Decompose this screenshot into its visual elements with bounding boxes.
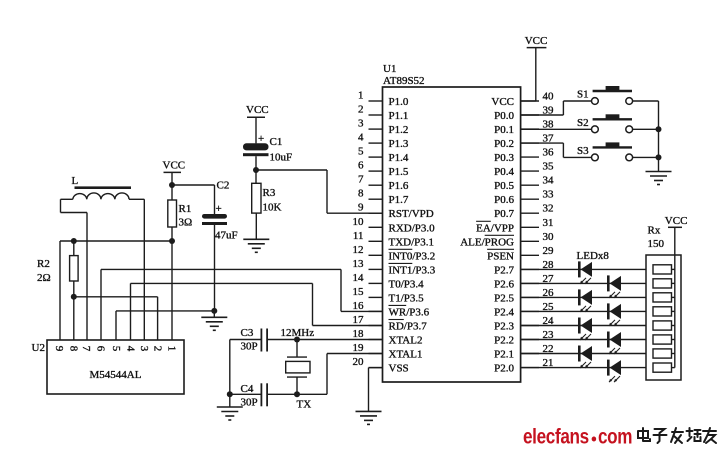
- svg-text:P1.0: P1.0: [389, 96, 409, 108]
- svg-text:P1.1: P1.1: [389, 110, 409, 122]
- svg-text:WR/P3.6: WR/P3.6: [389, 306, 430, 318]
- svg-text:P2.6: P2.6: [494, 278, 514, 290]
- svg-text:C1: C1: [270, 136, 283, 148]
- svg-text:+: +: [258, 133, 264, 145]
- svg-text:P0.5: P0.5: [494, 180, 514, 192]
- svg-text:150: 150: [648, 238, 665, 250]
- svg-text:S1: S1: [577, 89, 589, 101]
- svg-text:36: 36: [543, 147, 555, 159]
- svg-text:29: 29: [543, 245, 555, 257]
- svg-text:7: 7: [80, 346, 92, 352]
- svg-text:C3: C3: [241, 327, 254, 339]
- svg-text:P1.5: P1.5: [389, 166, 409, 178]
- svg-text:P1.7: P1.7: [389, 194, 409, 206]
- svg-text:R1: R1: [179, 203, 192, 215]
- svg-text:4: 4: [358, 132, 364, 144]
- svg-text:Rx: Rx: [648, 225, 661, 237]
- svg-text:30: 30: [543, 231, 555, 243]
- svg-text:31: 31: [543, 217, 554, 229]
- svg-text:com: com: [598, 426, 632, 449]
- svg-text:3Ω: 3Ω: [179, 217, 193, 229]
- svg-text:19: 19: [353, 342, 365, 354]
- svg-text:R3: R3: [263, 187, 276, 199]
- svg-text:4: 4: [124, 346, 136, 352]
- svg-text:30P: 30P: [241, 341, 258, 353]
- svg-text:47uF: 47uF: [215, 230, 238, 242]
- svg-text:2Ω: 2Ω: [37, 272, 51, 284]
- svg-text:P1.3: P1.3: [389, 138, 409, 150]
- svg-text:10: 10: [353, 216, 365, 228]
- svg-text:INT0/P3.2: INT0/P3.2: [389, 250, 436, 262]
- svg-text:8: 8: [358, 188, 364, 200]
- svg-text:elecfans: elecfans: [523, 426, 589, 449]
- svg-text:P2.1: P2.1: [494, 349, 514, 361]
- svg-text:INT1/P3.3: INT1/P3.3: [389, 264, 436, 276]
- svg-text:VCC: VCC: [163, 160, 186, 172]
- svg-text:RST/VPD: RST/VPD: [389, 208, 434, 220]
- svg-text:LEDx8: LEDx8: [577, 250, 610, 262]
- svg-text:T0/P3.4: T0/P3.4: [389, 278, 425, 290]
- svg-text:9: 9: [358, 202, 364, 214]
- svg-text:P2.5: P2.5: [494, 292, 514, 304]
- svg-text:VCC: VCC: [246, 104, 269, 116]
- svg-text:15: 15: [353, 286, 365, 298]
- svg-text:P2.4: P2.4: [494, 306, 514, 318]
- svg-text:2: 2: [358, 104, 364, 116]
- svg-text:12MHz: 12MHz: [281, 327, 315, 339]
- svg-text:P0.6: P0.6: [494, 194, 514, 206]
- svg-text:C4: C4: [241, 383, 254, 395]
- svg-text:AT89S52: AT89S52: [383, 75, 425, 87]
- svg-text:8: 8: [67, 346, 79, 352]
- svg-text:M54544AL: M54544AL: [90, 369, 142, 381]
- svg-text:U1: U1: [383, 63, 396, 75]
- svg-text:S3: S3: [577, 145, 589, 157]
- svg-text:EA/VPP: EA/VPP: [476, 222, 514, 234]
- svg-text:1: 1: [166, 346, 178, 352]
- svg-text:6: 6: [358, 160, 364, 172]
- svg-text:L: L: [72, 175, 79, 187]
- svg-text:RD/P3.7: RD/P3.7: [389, 321, 428, 333]
- svg-text:11: 11: [353, 230, 364, 242]
- svg-text:18: 18: [353, 328, 365, 340]
- svg-text:7: 7: [358, 174, 364, 186]
- svg-text:U2: U2: [32, 342, 45, 354]
- svg-text:20: 20: [353, 356, 365, 368]
- svg-text:P2.2: P2.2: [494, 335, 514, 347]
- svg-text:RXD/P3.0: RXD/P3.0: [389, 222, 436, 234]
- svg-text:P1.4: P1.4: [389, 152, 409, 164]
- svg-text:P2.0: P2.0: [494, 363, 514, 375]
- svg-text:VCC: VCC: [665, 215, 688, 227]
- svg-text:P0.7: P0.7: [494, 208, 514, 220]
- svg-text:6: 6: [94, 346, 106, 352]
- svg-text:3: 3: [138, 346, 150, 352]
- svg-text:P1.2: P1.2: [389, 124, 409, 136]
- svg-text:S2: S2: [577, 117, 589, 129]
- svg-text:P2.3: P2.3: [494, 321, 514, 333]
- svg-text:1: 1: [358, 90, 364, 102]
- svg-text:P0.0: P0.0: [494, 110, 514, 122]
- svg-text:C2: C2: [217, 180, 230, 192]
- svg-text:TX: TX: [297, 399, 312, 411]
- svg-text:XTAL1: XTAL1: [389, 349, 423, 361]
- svg-text:13: 13: [353, 258, 365, 270]
- svg-text:R2: R2: [37, 258, 50, 270]
- svg-text:VSS: VSS: [389, 363, 409, 375]
- svg-text:14: 14: [353, 272, 365, 284]
- svg-text:P2.7: P2.7: [494, 264, 514, 276]
- svg-text:33: 33: [543, 189, 555, 201]
- svg-text:17: 17: [353, 314, 365, 326]
- svg-text:ALE/PROG: ALE/PROG: [460, 236, 514, 248]
- svg-text:VCC: VCC: [525, 35, 548, 47]
- svg-text:+: +: [216, 203, 222, 215]
- svg-text:P0.4: P0.4: [494, 166, 514, 178]
- svg-text:PSEN: PSEN: [487, 250, 514, 262]
- svg-text:40: 40: [543, 91, 555, 103]
- svg-text:P1.6: P1.6: [389, 180, 409, 192]
- svg-text:12: 12: [353, 244, 364, 256]
- svg-text:XTAL2: XTAL2: [389, 335, 423, 347]
- svg-text:5: 5: [358, 146, 364, 158]
- svg-text:16: 16: [353, 300, 365, 312]
- svg-text:3: 3: [358, 118, 364, 130]
- svg-text:TXD/P3.1: TXD/P3.1: [389, 236, 435, 248]
- svg-text:P0.2: P0.2: [494, 138, 514, 150]
- svg-text:34: 34: [543, 175, 555, 187]
- svg-text:10uF: 10uF: [270, 152, 293, 164]
- svg-text:P0.1: P0.1: [494, 124, 514, 136]
- svg-text:P0.3: P0.3: [494, 152, 514, 164]
- svg-text:5: 5: [110, 346, 122, 352]
- svg-text:9: 9: [53, 346, 65, 352]
- svg-text:30P: 30P: [241, 397, 258, 409]
- svg-text:32: 32: [543, 203, 554, 215]
- svg-text:VCC: VCC: [491, 96, 514, 108]
- svg-text:T1/P3.5: T1/P3.5: [389, 292, 425, 304]
- svg-text:35: 35: [543, 161, 555, 173]
- svg-text:2: 2: [152, 346, 164, 352]
- svg-text:10K: 10K: [263, 202, 282, 214]
